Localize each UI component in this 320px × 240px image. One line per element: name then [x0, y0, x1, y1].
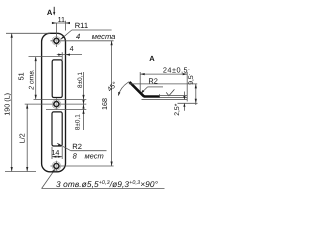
svg-text:L/2: L/2	[17, 133, 26, 143]
dim 14 ext right	[61, 147, 63, 159]
slot lower	[52, 112, 62, 146]
dim 190 (L) ext top	[6, 32, 50, 34]
dim L/2 line	[26, 104, 28, 171]
section A: solid part end vertical	[159, 94, 161, 97]
dim 24&#177;0,5 line	[140, 73, 187, 75]
label R2 slots leader	[57, 143, 71, 151]
dim 9,5 line	[195, 84, 197, 105]
dim 9,5 / 2,5 ref plane	[178, 102, 198, 104]
note 3 holes leader	[42, 169, 55, 188]
svg-text:2 отв.: 2 отв.	[29, 69, 36, 91]
surface finish mark	[166, 89, 174, 95]
dim 190 (L) ext bottom	[5, 171, 36, 173]
slot upper	[52, 60, 62, 98]
section R2 leader	[141, 87, 147, 93]
dim 51 ext bottom (shared with 8-dim)	[34, 98, 87, 100]
dim 14 line	[52, 156, 62, 158]
dim 24&#177;0,5 ext right (bar end)	[186, 72, 188, 101]
svg-text:R2: R2	[72, 142, 82, 151]
section A: bar thin part top edge	[160, 94, 188, 96]
svg-text:8±0,1: 8±0,1	[77, 72, 84, 88]
dim 11 ext right	[65, 21, 67, 31]
dim 11 line	[52, 22, 70, 24]
svg-text:A: A	[149, 54, 155, 63]
section A: 45 deg angle leg from lip tip	[118, 82, 129, 96]
dim 2,5* lower arrow segment	[183, 103, 185, 111]
section A: bar thin part bottom edge	[160, 97, 188, 99]
hole top ø5,5	[54, 38, 59, 43]
view arrow A (top)	[53, 7, 55, 14]
svg-text:9,5-: 9,5-	[187, 73, 195, 84]
dim 168 line	[111, 41, 113, 166]
dim 8±0,1 ext slot2 top	[46, 108, 86, 110]
section R2 shelf	[148, 86, 163, 88]
svg-text:2,5*: 2,5*	[174, 103, 181, 115]
svg-text:14: 14	[51, 148, 59, 157]
hole bottom centerline vertical	[55, 161, 57, 171]
hole top countersink ø9,3	[52, 37, 61, 46]
label R11 shelf	[72, 29, 112, 31]
svg-text:3 отв.ø5,5+0,3/ø9,3+0,3×90°: 3 отв.ø5,5+0,3/ø9,3+0,3×90°	[56, 179, 159, 189]
label R2 slots shelf	[71, 150, 107, 152]
dim 2,5* upper arrow segment	[183, 92, 185, 100]
dim 51 ext top	[29, 56, 63, 58]
hole bottom centerline horizontal	[51, 165, 114, 167]
dim 14 ext left	[51, 147, 53, 159]
dim 9,5 ext top (lip tip plane)	[129, 83, 197, 85]
svg-text:51: 51	[16, 72, 25, 80]
hole middle ø5,5	[54, 102, 59, 107]
svg-text:45°: 45°	[107, 81, 120, 94]
svg-text:A: A	[47, 8, 53, 17]
svg-text:4места: 4места	[76, 32, 115, 41]
svg-text:8мест: 8мест	[73, 152, 104, 161]
note shelf underline	[42, 188, 165, 190]
svg-text:190 (L): 190 (L)	[3, 93, 12, 116]
hole top centerline horizontal	[51, 40, 114, 42]
dim 8±0,1 lower arrows	[82, 100, 84, 104]
plate outline	[42, 33, 66, 172]
dim 4 line	[57, 54, 82, 56]
hole middle centerline vertical	[55, 98, 57, 109]
label R11 leader	[61, 30, 72, 39]
svg-text:8±0,1: 8±0,1	[74, 114, 81, 130]
hole bottom countersink ø9,3	[52, 162, 61, 171]
svg-text:24±0,5-: 24±0,5-	[163, 66, 190, 75]
dim 24&#177;0,5 ext left	[139, 72, 141, 92]
svg-text:R11: R11	[75, 21, 88, 30]
hole middle countersink ø9,3	[52, 100, 61, 109]
svg-text:168: 168	[100, 98, 109, 110]
dim 8±0,1 chain line and upper arrows	[83, 72, 85, 130]
dim 190 (L) line	[11, 33, 13, 171]
section A: profile solid part (lip and bar)	[130, 82, 160, 97]
svg-text:4: 4	[70, 44, 74, 53]
svg-text:11: 11	[58, 15, 65, 24]
hole bottom ø5,5	[54, 164, 59, 169]
hole top centerline vertical	[55, 23, 57, 47]
dim 4 ext	[61, 52, 63, 60]
section A: bar lower outline	[142, 99, 188, 101]
dim 51 line	[35, 57, 37, 100]
hole middle centerline horizontal	[25, 103, 87, 105]
